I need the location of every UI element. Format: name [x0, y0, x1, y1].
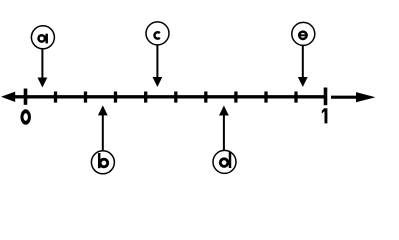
letter e bowl — [299, 32, 306, 39]
minor tick 0.3 — [114, 92, 117, 103]
letter b stem — [98, 153, 101, 168]
letter d bowl — [220, 159, 228, 167]
tick 0 (major) — [24, 89, 28, 105]
right axis segment after the 1 tick — [331, 96, 358, 99]
point b arrow shaft — [102, 115, 104, 150]
letter b bowl — [100, 159, 108, 167]
letter e crossbar — [298, 34, 308, 36]
point a arrow shaft — [41, 49, 43, 78]
point c arrow shaft — [156, 45, 158, 78]
point c: circled letter — [146, 22, 169, 45]
point a arrowhead (down) — [38, 78, 48, 88]
point d arrow shaft — [223, 115, 225, 150]
number line (main axis) — [11, 95, 327, 98]
minor tick 0.4 — [144, 92, 147, 103]
point e arrow shaft — [302, 46, 304, 78]
label 0 — [20, 109, 31, 125]
letter a bowl — [39, 35, 45, 41]
point a: circled letter — [31, 26, 54, 49]
minor tick 0.2 — [84, 92, 87, 103]
point b: circled letter — [91, 151, 114, 174]
point d arrowhead (up) — [219, 106, 229, 116]
letter d stem — [229, 152, 232, 168]
letter a stem — [45, 34, 48, 44]
minor tick 0.5 — [174, 92, 177, 103]
right arrowhead of axis — [356, 92, 376, 102]
minor tick 0.6 — [204, 92, 207, 103]
point b arrowhead (up) — [98, 105, 108, 115]
letter c open bowl — [154, 32, 159, 38]
tick 1 (major) — [324, 88, 328, 106]
minor tick 0.1 — [54, 92, 57, 103]
label 1 — [322, 108, 328, 123]
point d: circled letter — [213, 150, 236, 173]
point e arrowhead (down) — [298, 77, 308, 87]
minor tick 0.9 — [294, 92, 297, 103]
minor tick 0.8 — [264, 92, 267, 103]
left arrowhead of axis — [1, 92, 15, 102]
point c arrowhead (down) — [153, 77, 163, 87]
point e: circled letter — [292, 22, 315, 45]
minor tick 0.7 — [234, 92, 237, 103]
